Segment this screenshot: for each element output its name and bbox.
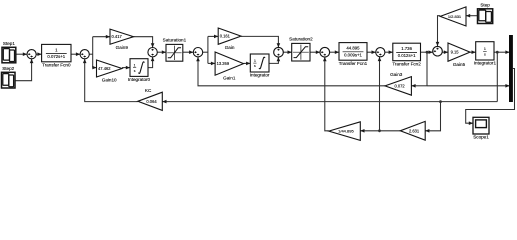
svg-text:47.462: 47.462 [98,66,111,71]
svg-text:Gain5: Gain5 [453,62,466,67]
svg-text:Gain: Gain [225,45,235,50]
svg-text:Integrator1: Integrator1 [474,61,497,66]
svg-text:Transfer Fcn2: Transfer Fcn2 [392,61,421,66]
svg-text:Scope1: Scope1 [473,134,489,139]
svg-text:Integrator0: Integrator0 [128,77,151,82]
svg-text:Gain1: Gain1 [223,76,236,81]
svg-text:1: 1 [254,59,256,63]
svg-text:Saturation1: Saturation1 [163,38,187,43]
svg-text:Saturation2: Saturation2 [289,37,313,42]
svg-text:0.072s+1: 0.072s+1 [47,54,65,59]
svg-text:1: 1 [134,64,136,68]
svg-text:0.072: 0.072 [394,83,405,88]
svg-text:0.009s+1: 0.009s+1 [344,52,362,57]
svg-text:44.895: 44.895 [346,46,360,51]
svg-text:2.631: 2.631 [409,128,420,133]
svg-text:Gain10: Gain10 [102,78,117,83]
svg-text:Transfer Fcn1: Transfer Fcn1 [339,61,368,66]
svg-text:KC: KC [145,88,152,93]
svg-text:0.161: 0.161 [220,34,231,39]
svg-text:1.736: 1.736 [401,46,412,51]
svg-text:1/44.895: 1/44.895 [338,129,354,134]
svg-text:Step2: Step2 [2,66,14,71]
svg-text:13.269: 13.269 [217,61,230,66]
svg-text:0.012s+1: 0.012s+1 [398,53,416,58]
svg-text:Step: Step [480,3,490,8]
svg-text:0.417: 0.417 [112,34,123,39]
svg-text:1: 1 [484,47,486,51]
svg-text:s: s [134,69,136,73]
svg-text:Step1: Step1 [3,41,15,46]
svg-text:0.064: 0.064 [146,99,157,104]
svg-text:Gain3: Gain3 [390,72,403,77]
svg-text:s: s [254,64,256,68]
svg-text:1/2.831: 1/2.831 [448,14,462,19]
svg-text:Integrator: Integrator [250,73,270,78]
svg-text:9.15: 9.15 [451,50,460,55]
svg-text:Gain9: Gain9 [116,45,129,50]
svg-text:Transfer Fcn0: Transfer Fcn0 [42,62,71,67]
svg-text:s: s [484,53,486,57]
